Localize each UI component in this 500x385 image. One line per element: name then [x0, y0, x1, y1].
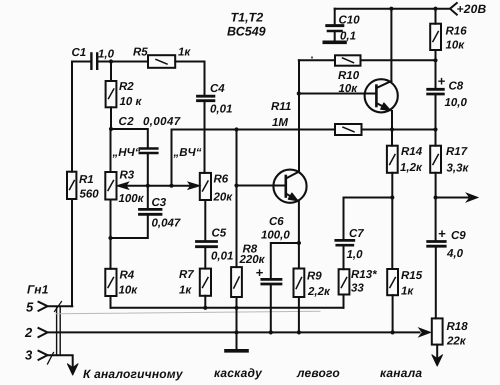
- svg-text:Гн1: Гн1: [27, 283, 49, 297]
- resistor R15: [387, 198, 423, 335]
- resistor R11: [271, 101, 436, 135]
- output arrow: [436, 193, 478, 202]
- resistor R2: [106, 62, 143, 130]
- wire pin2 ground line to R18 wiper: [48, 331, 420, 333]
- svg-text:33: 33: [351, 283, 364, 295]
- capacitor C8: [428, 60, 468, 129]
- svg-text:+: +: [438, 74, 446, 89]
- svg-text:1,2к: 1,2к: [400, 162, 423, 174]
- svg-text:10к: 10к: [446, 40, 466, 52]
- svg-text:ВС549: ВС549: [227, 25, 266, 39]
- svg-text:10 к: 10 к: [120, 96, 143, 108]
- node R14/C7: [390, 195, 394, 199]
- svg-text:R7: R7: [179, 269, 194, 281]
- svg-text:1к: 1к: [401, 286, 414, 298]
- svg-text:R16: R16: [446, 26, 468, 38]
- potentiometer R18: [419, 318, 468, 366]
- svg-text:10,0: 10,0: [445, 97, 468, 109]
- svg-text:„ВЧ“: „ВЧ“: [173, 147, 202, 159]
- node R17/C9/output: [434, 195, 438, 199]
- svg-text:С7: С7: [349, 228, 364, 240]
- capacitor C3: [108, 186, 180, 240]
- wire pin3 to down arrow: [48, 353, 79, 376]
- capacitor C2: [112, 116, 181, 186]
- svg-text:+: +: [256, 265, 264, 280]
- wire R3 top stem: [110, 129, 112, 172]
- svg-text:5: 5: [26, 300, 34, 315]
- node C8 bottom: [433, 127, 437, 131]
- svg-text:3,3к: 3,3к: [447, 163, 470, 175]
- resistor R5: [133, 47, 205, 68]
- capacitor C1: [72, 47, 149, 69]
- svg-text:+: +: [438, 226, 446, 241]
- wire ВЧ branch: [172, 130, 336, 186]
- svg-text:левого: левого: [296, 366, 340, 380]
- capacitor C6: [256, 216, 299, 335]
- label T1,T2 BC549: [227, 11, 266, 39]
- svg-text:R15: R15: [401, 270, 423, 282]
- svg-text:„НЧ“: „НЧ“: [112, 147, 141, 159]
- resistor R4: [105, 269, 138, 308]
- capacitor C10: [324, 9, 360, 43]
- node T1 emitter: [297, 241, 301, 245]
- potentiometer R6: [200, 173, 233, 240]
- pin 3: [25, 348, 48, 363]
- resistor R17: [430, 130, 469, 198]
- svg-text:1,0: 1,0: [98, 49, 115, 61]
- shielded cable double line: [55, 302, 62, 356]
- svg-text:10к: 10к: [339, 83, 359, 95]
- svg-text:С5: С5: [212, 228, 227, 240]
- ground: [226, 330, 247, 351]
- svg-text:С1: С1: [72, 47, 87, 59]
- svg-text:R4: R4: [120, 270, 135, 282]
- resistor R13: [339, 269, 377, 308]
- svg-text:22к: 22к: [446, 336, 467, 348]
- svg-text:20к: 20к: [213, 192, 234, 204]
- svg-text:С4: С4: [210, 83, 225, 95]
- svg-text:10к: 10к: [119, 285, 139, 297]
- wire R2 node to C2: [111, 129, 148, 147]
- pin 5: [26, 300, 48, 315]
- svg-text:С10: С10: [339, 15, 361, 27]
- svg-text:каскаду: каскаду: [214, 366, 263, 380]
- resistor R9: [294, 243, 331, 335]
- transistor T1: [273, 60, 306, 243]
- resistor R16: [430, 9, 467, 61]
- wiper arrow R3-R6: [117, 182, 200, 189]
- potentiometer R3: [105, 170, 144, 269]
- svg-text:1к: 1к: [178, 47, 191, 59]
- svg-text:R1: R1: [79, 174, 94, 186]
- node T1 base branch on feedback line: [234, 127, 238, 131]
- svg-text:0,01: 0,01: [211, 251, 233, 263]
- svg-text:R9: R9: [307, 271, 322, 283]
- svg-text:1к: 1к: [179, 285, 192, 297]
- svg-text:R6: R6: [214, 174, 229, 186]
- resistor R14: [387, 130, 423, 198]
- svg-text:R18: R18: [447, 321, 469, 333]
- svg-text:0,047: 0,047: [152, 218, 181, 230]
- resistor R8: [231, 186, 266, 333]
- +20V terminal: [450, 2, 486, 16]
- capacitor C7: [336, 198, 393, 270]
- svg-text:С3: С3: [152, 197, 167, 209]
- resistor R1: [67, 172, 99, 201]
- svg-text:С9: С9: [451, 230, 466, 242]
- svg-text:0,1: 0,1: [340, 31, 356, 43]
- svg-text:R17: R17: [446, 146, 468, 158]
- svg-text:2: 2: [24, 325, 33, 340]
- svg-text:R5: R5: [133, 47, 148, 59]
- wire pin5 to left column: [48, 305, 73, 307]
- node C1/R2/R5: [109, 59, 113, 63]
- svg-text:С2 0,0047: С2 0,0047: [119, 116, 181, 128]
- svg-text:1,0: 1,0: [347, 249, 364, 261]
- svg-text:0,01: 0,01: [210, 104, 232, 116]
- wire left column (C1 left / R1): [71, 62, 73, 307]
- svg-text:2,2к: 2,2к: [307, 286, 331, 298]
- transistor T2: [365, 9, 398, 130]
- svg-text:R11: R11: [271, 101, 291, 113]
- svg-text:Т1,Т2: Т1,Т2: [231, 11, 264, 25]
- svg-text:4,0: 4,0: [446, 248, 464, 260]
- svg-text:+20В: +20В: [457, 2, 487, 16]
- faint scan crease line: [56, 311, 320, 314]
- capacitor C4: [198, 62, 233, 173]
- svg-text:100к: 100к: [119, 193, 145, 205]
- capacitor C9: [428, 198, 467, 319]
- svg-text:3: 3: [25, 348, 33, 363]
- label К аналогичному каскаду левого канала: [83, 366, 422, 381]
- resistor R10: [335, 55, 436, 95]
- svg-text:R2: R2: [119, 81, 134, 93]
- node R2/C2/R3: [109, 127, 113, 131]
- top supply rail: [335, 7, 450, 11]
- pin 2: [24, 325, 48, 340]
- svg-text:560: 560: [80, 189, 100, 201]
- scan speck: [311, 56, 313, 58]
- node R16/C8/R10: [433, 58, 437, 62]
- svg-text:R14: R14: [401, 146, 423, 158]
- capacitor C5: [197, 228, 234, 269]
- node T2 emitter on feedback line: [390, 127, 394, 131]
- wire T1 base column: [234, 130, 285, 188]
- svg-text:С8: С8: [449, 81, 464, 93]
- svg-text:100,0: 100,0: [261, 230, 290, 242]
- svg-text:R3: R3: [120, 170, 135, 182]
- bottom bus R4 to R13: [111, 306, 344, 310]
- svg-text:R10: R10: [338, 70, 360, 82]
- svg-text:К аналогичному: К аналогичному: [83, 367, 184, 381]
- wire R10 left / T1 collector branch: [297, 60, 377, 95]
- resistor R7: [179, 269, 211, 308]
- svg-text:R13*: R13*: [351, 269, 377, 281]
- svg-text:С6: С6: [269, 216, 284, 228]
- connector Гн1 label: [27, 283, 49, 297]
- svg-text:канала: канала: [380, 366, 422, 380]
- svg-text:1М: 1М: [272, 117, 288, 129]
